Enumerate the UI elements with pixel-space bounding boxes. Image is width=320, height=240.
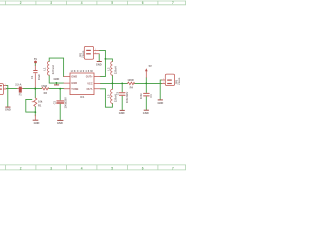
svg-text:120R: 120R bbox=[127, 78, 133, 82]
svg-text:OUT-: OUT- bbox=[86, 87, 92, 91]
svg-text:10uF: 10uF bbox=[37, 74, 41, 80]
svg-text:6: 6 bbox=[142, 1, 144, 5]
svg-text:5V: 5V bbox=[149, 64, 152, 68]
svg-text:C4: C4 bbox=[149, 94, 153, 98]
svg-text:R1: R1 bbox=[38, 104, 42, 108]
svg-text:1: 1 bbox=[163, 79, 164, 81]
svg-text:GND: GND bbox=[71, 81, 77, 85]
svg-text:5: 5 bbox=[111, 166, 113, 170]
svg-text:TUNE: TUNE bbox=[71, 87, 78, 91]
svg-text:4: 4 bbox=[81, 1, 83, 5]
svg-text:100n: 100n bbox=[139, 93, 143, 99]
svg-text:2: 2 bbox=[163, 82, 164, 84]
svg-text:HKCH046M: HKCH046M bbox=[71, 69, 94, 73]
svg-text:3: 3 bbox=[50, 166, 52, 170]
svg-text:1: 1 bbox=[95, 49, 96, 51]
svg-text:10k: 10k bbox=[38, 99, 43, 103]
svg-text:2,5-A: 2,5-A bbox=[15, 83, 21, 87]
svg-text:GND: GND bbox=[54, 77, 60, 81]
svg-text:R4: R4 bbox=[130, 85, 134, 89]
svg-text:C1: C1 bbox=[30, 75, 34, 79]
svg-text:OUT+: OUT+ bbox=[86, 75, 93, 79]
svg-text:6: 6 bbox=[142, 166, 144, 170]
svg-text:GND: GND bbox=[96, 62, 102, 66]
svg-text:GND: GND bbox=[34, 121, 40, 125]
svg-text:2: 2 bbox=[95, 52, 96, 54]
svg-text:VCC: VCC bbox=[87, 81, 93, 85]
svg-text:5: 5 bbox=[111, 1, 113, 5]
svg-text:5V: 5V bbox=[34, 57, 37, 61]
svg-text:17k8: 17k8 bbox=[41, 84, 47, 88]
svg-text:R3: R3 bbox=[44, 91, 48, 95]
svg-text:100u/25V: 100u/25V bbox=[63, 97, 67, 109]
svg-text:7: 7 bbox=[172, 1, 174, 5]
svg-text:PINHD: PINHD bbox=[179, 77, 181, 84]
svg-text:4: 4 bbox=[81, 166, 83, 170]
svg-text:2: 2 bbox=[20, 166, 22, 170]
svg-text:GND: GND bbox=[143, 111, 149, 115]
svg-text:220uH: 220uH bbox=[51, 65, 55, 74]
svg-text:2: 2 bbox=[5, 88, 6, 90]
svg-text:2: 2 bbox=[20, 1, 22, 5]
svg-text:C3: C3 bbox=[115, 91, 119, 95]
svg-text:1: 1 bbox=[5, 84, 6, 86]
svg-text:GND: GND bbox=[57, 121, 63, 125]
svg-text:JP3: JP3 bbox=[175, 79, 179, 84]
svg-text:GND: GND bbox=[119, 111, 125, 115]
svg-text:GND: GND bbox=[5, 108, 11, 112]
svg-text:GND: GND bbox=[158, 101, 164, 105]
svg-text:GND: GND bbox=[71, 75, 77, 79]
svg-text:7: 7 bbox=[172, 166, 174, 170]
svg-text:IC1: IC1 bbox=[80, 95, 85, 99]
svg-text:PINHD: PINHD bbox=[83, 50, 85, 57]
svg-text:C2: C2 bbox=[53, 100, 57, 104]
svg-text:3: 3 bbox=[50, 1, 52, 5]
svg-text:220uH: 220uH bbox=[114, 66, 118, 74]
svg-text:100n/1kV: 100n/1kV bbox=[125, 91, 129, 103]
svg-text:JP2: JP2 bbox=[78, 52, 82, 57]
